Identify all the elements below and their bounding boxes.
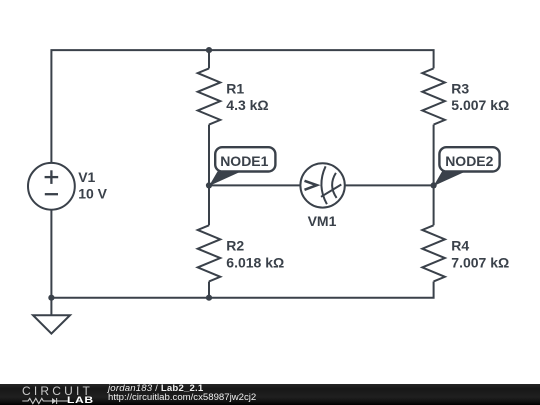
svg-text:NODE1: NODE1: [220, 153, 268, 169]
svg-text:R2: R2: [226, 238, 244, 254]
svg-text:R1: R1: [226, 81, 244, 97]
svg-text:5.007 kΩ: 5.007 kΩ: [451, 97, 509, 113]
svg-text:6.018 kΩ: 6.018 kΩ: [226, 254, 284, 270]
svg-text:4.3 kΩ: 4.3 kΩ: [226, 97, 268, 113]
svg-text:NODE2: NODE2: [445, 153, 493, 169]
svg-text:7.007 kΩ: 7.007 kΩ: [451, 254, 509, 270]
svg-text:R3: R3: [451, 81, 469, 97]
svg-text:10 V: 10 V: [78, 185, 107, 201]
svg-text:V1: V1: [78, 169, 95, 185]
svg-text:VM1: VM1: [308, 213, 337, 229]
svg-text:R4: R4: [451, 238, 469, 254]
